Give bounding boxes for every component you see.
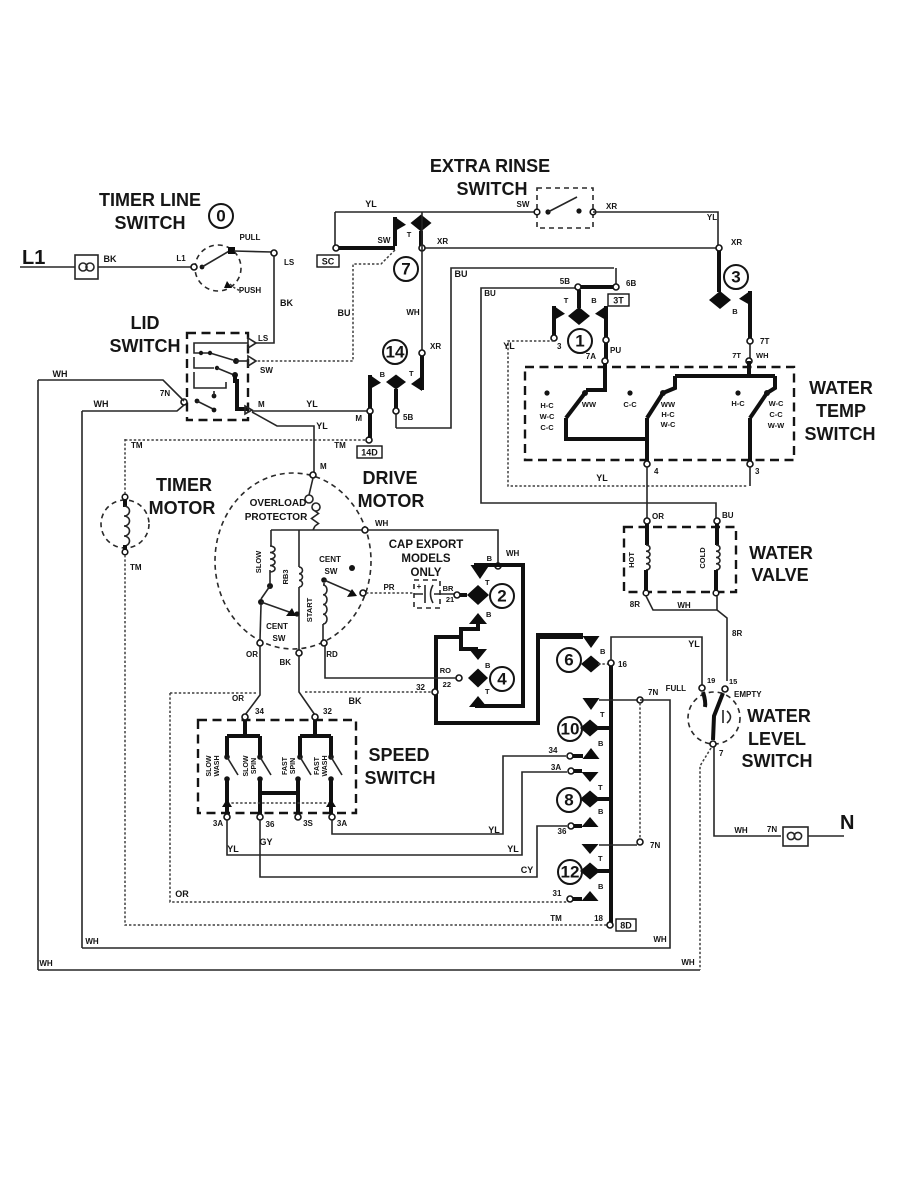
connector circle 4	[490, 667, 514, 691]
svg-text:34: 34	[255, 707, 264, 716]
svg-text:SWITCH: SWITCH	[457, 179, 528, 199]
svg-text:LEVEL: LEVEL	[748, 729, 806, 749]
wire from terminal 4 down	[646, 467, 648, 519]
svg-text:B: B	[732, 307, 738, 316]
wire 8R to water level switch	[717, 610, 727, 681]
svg-text:SW: SW	[273, 634, 286, 643]
wire OR frame vertical	[170, 693, 568, 902]
svg-text:T: T	[598, 783, 603, 792]
svg-text:B: B	[598, 739, 604, 748]
terminal 3A left	[224, 814, 230, 820]
connector 2 diamond	[467, 585, 489, 605]
svg-text:BU: BU	[338, 308, 351, 318]
terminal 36 panel	[568, 823, 574, 829]
svg-text:B: B	[600, 647, 606, 656]
wire 5B-6B thick link	[581, 285, 613, 289]
switch group C	[735, 390, 740, 395]
connector 6 diamond	[581, 656, 601, 673]
wire XR to right corner	[593, 212, 718, 246]
connector 14 right pennant XR	[420, 356, 424, 390]
hot solenoid	[645, 524, 649, 545]
wire YL 3A-left to 3A panel	[227, 772, 567, 855]
extra rinse switch box	[537, 188, 593, 228]
svg-text:MODELS: MODELS	[401, 553, 451, 565]
svg-text:WH: WH	[85, 937, 99, 946]
push arrow	[230, 284, 242, 291]
cent switch upper	[349, 565, 355, 571]
svg-text:PUSH: PUSH	[239, 286, 261, 295]
connector circle 12	[558, 860, 582, 884]
svg-text:5B: 5B	[403, 413, 413, 422]
svg-text:8R: 8R	[732, 629, 742, 638]
terminal 7 common	[710, 741, 716, 747]
water level switch arms	[703, 692, 705, 707]
svg-text:SLOW: SLOW	[254, 550, 263, 573]
connector 4 diamond	[468, 669, 488, 688]
svg-text:XR: XR	[430, 342, 441, 351]
svg-text:SC: SC	[322, 257, 335, 267]
RB3 winding	[298, 530, 300, 567]
main bus 16-18	[609, 666, 613, 923]
lid switch internal wiring	[194, 343, 248, 360]
svg-text:8: 8	[564, 791, 573, 810]
svg-text:WW: WW	[582, 400, 597, 409]
svg-text:SWITCH: SWITCH	[365, 768, 436, 788]
connector circle 3	[724, 265, 748, 289]
svg-text:7T: 7T	[760, 337, 769, 346]
wire 7N horizontal	[599, 699, 637, 701]
svg-text:PROTECTOR: PROTECTOR	[245, 512, 308, 523]
svg-text:SLOWSPIN: SLOWSPIN	[243, 755, 258, 776]
svg-text:ONLY: ONLY	[411, 567, 442, 579]
svg-text:XR: XR	[731, 238, 742, 247]
lid switch terminal SW	[248, 356, 256, 366]
svg-text:36: 36	[266, 820, 275, 829]
capacitor	[414, 580, 440, 608]
slow spin arm	[257, 754, 263, 760]
drive motor terminal RD	[321, 640, 327, 646]
lid switch terminal LS	[248, 338, 256, 348]
wire WH left vertical inner	[81, 411, 83, 948]
svg-text:T: T	[564, 296, 569, 305]
svg-text:OR: OR	[232, 694, 244, 703]
svg-text:OVERLOAD: OVERLOAD	[250, 498, 307, 509]
speed switch left bus	[227, 720, 260, 755]
timer line switch PULL contact wire to LS	[234, 251, 272, 252]
terminal 7T WH	[749, 344, 751, 359]
wire WH upper	[38, 380, 184, 401]
connector circle 10	[558, 717, 582, 741]
connector 3 terminal XR	[716, 245, 722, 251]
svg-text:B: B	[485, 661, 491, 670]
connector circle 6	[557, 648, 581, 672]
terminal 36	[257, 814, 263, 820]
svg-text:7N: 7N	[650, 841, 660, 850]
terminal 3S	[295, 814, 301, 820]
svg-text:WH: WH	[677, 601, 691, 610]
svg-text:W-C: W-C	[769, 399, 784, 408]
svg-text:WH: WH	[53, 369, 68, 379]
connector 8 diamond	[580, 791, 600, 808]
svg-text:VALVE: VALVE	[751, 565, 808, 585]
wire L1 feed	[20, 266, 75, 268]
connector 12 top triangle	[582, 844, 599, 854]
svg-text:+: +	[417, 582, 422, 591]
svg-text:WATER: WATER	[747, 706, 811, 726]
svg-text:RD: RD	[326, 650, 338, 659]
terminal 31	[567, 896, 573, 902]
connector circle 2	[490, 584, 514, 608]
svg-text:6B: 6B	[626, 279, 636, 288]
svg-text:3A: 3A	[213, 819, 223, 828]
svg-text:SWITCH: SWITCH	[805, 424, 876, 444]
svg-text:14: 14	[386, 343, 405, 362]
svg-text:B: B	[598, 807, 604, 816]
connector 7 left pennant SW	[393, 217, 397, 246]
terminal 5B connector 1	[575, 284, 581, 290]
connector 8 bottom triangle	[582, 817, 599, 827]
svg-text:EXTRA RINSE: EXTRA RINSE	[430, 156, 550, 176]
svg-text:C-C: C-C	[623, 400, 637, 409]
connector 4 top triangle	[469, 649, 487, 660]
wire BK to 32	[305, 691, 433, 693]
wire YL diagonal to drive motor M	[252, 412, 314, 472]
terminal BU	[714, 518, 720, 524]
water temp switch 7A stem	[586, 363, 605, 390]
svg-text:32: 32	[416, 683, 425, 692]
svg-text:14D: 14D	[361, 448, 378, 458]
svg-text:BU: BU	[455, 269, 468, 279]
svg-text:START: START	[305, 597, 314, 622]
svg-text:TM: TM	[550, 914, 562, 923]
terminal RO	[456, 675, 462, 681]
timer motor dashed circle	[101, 500, 149, 548]
svg-text:H-C: H-C	[661, 410, 675, 419]
wire BU outer to 6B	[396, 268, 614, 428]
connector circle 14	[383, 340, 407, 364]
wire 8R under valve	[646, 596, 717, 610]
connector 14 M stem down	[368, 414, 372, 438]
terminal EMPTY 15	[722, 686, 728, 692]
svg-text:PR: PR	[383, 583, 394, 592]
svg-text:FASTWASH: FASTWASH	[314, 756, 329, 777]
svg-text:WH: WH	[653, 935, 667, 944]
svg-text:H-C: H-C	[731, 399, 745, 408]
pressure symbol	[723, 710, 731, 723]
svg-text:TIMER: TIMER	[156, 475, 212, 495]
wire TM top	[124, 439, 126, 494]
svg-text:YL: YL	[507, 844, 519, 854]
wire WH bottom outer	[38, 969, 700, 971]
svg-text:0: 0	[216, 207, 225, 226]
svg-text:6: 6	[564, 651, 573, 670]
terminal 18 8D	[607, 922, 613, 928]
svg-text:BK: BK	[104, 254, 117, 264]
svg-text:SWITCH: SWITCH	[115, 213, 186, 233]
connector circle 8	[557, 788, 581, 812]
svg-text:YL: YL	[365, 199, 377, 209]
svg-text:B: B	[591, 296, 597, 305]
wire BK from timer line switch to lid switch LS	[256, 256, 274, 343]
wire GY 36 to 36 panel	[260, 820, 567, 877]
svg-text:4: 4	[654, 467, 659, 476]
svg-text:RO: RO	[440, 666, 451, 675]
wire 7N to connector 12	[599, 844, 637, 846]
drive motor terminal BK	[296, 650, 302, 656]
connector 14 diamond	[386, 375, 406, 390]
svg-text:L1: L1	[176, 254, 186, 263]
svg-text:21: 21	[446, 595, 454, 604]
connector 1 right pennant PU	[604, 306, 608, 338]
svg-text:34: 34	[549, 746, 558, 755]
drive motor terminal M	[310, 472, 316, 478]
svg-text:WH: WH	[39, 959, 53, 968]
speed switch linkage	[227, 802, 331, 804]
wire XR horizontal	[422, 247, 718, 249]
svg-text:BR: BR	[443, 584, 454, 593]
terminal FULL 19	[699, 685, 705, 691]
svg-text:COLD: COLD	[698, 547, 707, 569]
svg-text:GY: GY	[259, 837, 272, 847]
svg-text:BK: BK	[349, 696, 362, 706]
svg-text:W-C: W-C	[661, 420, 676, 429]
wire WH lower	[82, 405, 184, 411]
lid switch thick wire to M	[235, 375, 247, 409]
connector 7 diamond	[411, 215, 432, 232]
svg-text:PULL: PULL	[240, 233, 261, 242]
svg-text:LID: LID	[131, 313, 160, 333]
connector circle 7	[394, 257, 418, 281]
wire SC curve from SW	[256, 250, 395, 361]
svg-text:15: 15	[729, 677, 737, 686]
connector 10 top triangle	[583, 698, 600, 710]
wire PU to 7A	[604, 343, 608, 361]
slow winding	[270, 530, 272, 546]
svg-text:TM: TM	[130, 563, 142, 572]
svg-text:WATER: WATER	[749, 543, 813, 563]
svg-text:B: B	[487, 554, 493, 563]
terminal 34 panel	[567, 753, 573, 759]
water valve box	[624, 527, 736, 592]
svg-text:8D: 8D	[620, 921, 632, 931]
wire YL top	[335, 211, 537, 213]
svg-text:XR: XR	[606, 202, 617, 211]
svg-text:M: M	[355, 414, 362, 423]
svg-text:OR: OR	[246, 650, 258, 659]
wire BK from motor	[299, 656, 315, 715]
svg-text:3: 3	[557, 342, 562, 351]
wire YL 3A-right to 34 panel	[332, 756, 566, 834]
connector 1 stem up to 5B	[577, 290, 581, 308]
timer motor coil	[122, 494, 128, 500]
svg-text:SWITCH: SWITCH	[110, 336, 181, 356]
connector 12 diamond	[580, 863, 600, 880]
terminal 32	[312, 714, 318, 720]
wire 7 diagonal to WH bus	[700, 748, 711, 970]
svg-text:36: 36	[558, 827, 567, 836]
svg-text:H-C: H-C	[540, 401, 554, 410]
svg-text:YL: YL	[707, 213, 717, 222]
terminal OR	[644, 518, 650, 524]
wire YL terminal 3 loop	[749, 467, 751, 486]
wire 7 to N	[714, 747, 781, 836]
svg-text:7N: 7N	[648, 688, 658, 697]
wire YL drop to SW terminal	[334, 212, 336, 248]
terminal TM 14D	[366, 437, 372, 443]
svg-text:T: T	[407, 230, 412, 239]
svg-text:3S: 3S	[303, 819, 313, 828]
terminal 7T	[747, 338, 753, 344]
wire YL lid M to connector 14	[252, 410, 367, 412]
drive motor terminal PR	[360, 590, 366, 596]
connector 14 left pennant M	[368, 375, 372, 408]
speed switch lower bus	[227, 779, 331, 814]
svg-text:WATER: WATER	[809, 378, 873, 398]
svg-text:7N: 7N	[767, 825, 777, 834]
switch group B	[627, 390, 632, 395]
svg-text:MOTOR: MOTOR	[149, 498, 216, 518]
fast wash arm	[328, 754, 334, 760]
speed switch box	[198, 720, 356, 813]
wire PR to capacitor	[366, 592, 414, 594]
connector 3 diamond	[717, 251, 721, 292]
svg-text:W-C: W-C	[540, 412, 555, 421]
wire BK to timer line switch	[98, 266, 191, 268]
svg-text:BU: BU	[722, 511, 734, 520]
svg-text:YL: YL	[227, 844, 239, 854]
svg-text:18: 18	[594, 914, 603, 923]
svg-text:7: 7	[401, 260, 410, 279]
svg-text:16: 16	[618, 660, 627, 669]
terminal 3A right	[329, 814, 335, 820]
terminal 3A panel	[568, 768, 574, 774]
cent switch lower	[258, 599, 264, 605]
svg-text:4: 4	[497, 670, 507, 689]
connector 4 shell box	[436, 635, 583, 723]
svg-text:OR: OR	[652, 512, 664, 521]
node SC label	[317, 255, 339, 267]
svg-text:YL: YL	[596, 473, 608, 483]
svg-text:7T: 7T	[732, 351, 741, 360]
svg-text:W-W: W-W	[768, 421, 785, 430]
svg-text:SW: SW	[325, 567, 338, 576]
timer line switch (dashed circle)	[195, 245, 241, 291]
terminal 6B	[615, 268, 617, 285]
speed switch right bus	[300, 720, 331, 755]
svg-text:TIMER LINE: TIMER LINE	[99, 190, 201, 210]
switch group A	[544, 390, 549, 395]
svg-text:B: B	[380, 370, 386, 379]
connector 2 top triangle	[471, 565, 490, 579]
connector circle 0	[209, 204, 233, 228]
svg-text:YL: YL	[688, 639, 700, 649]
switch group D	[764, 390, 770, 396]
water temp switch box	[525, 367, 794, 460]
svg-text:YL: YL	[503, 341, 515, 351]
wire SW thick to connector 7	[336, 246, 395, 250]
start winding	[323, 583, 325, 585]
svg-text:LS: LS	[284, 258, 295, 267]
wire RO to RD	[325, 646, 456, 678]
terminal 32 box	[432, 689, 438, 695]
wire to N	[808, 835, 844, 837]
connector 6 feed triangle	[538, 635, 583, 639]
wire TM horizontal to 14D	[125, 439, 367, 441]
terminal 3	[747, 461, 753, 467]
terminal 34	[242, 714, 248, 720]
svg-text:SW: SW	[378, 236, 391, 245]
svg-text:OR: OR	[175, 889, 189, 899]
svg-text:FASTSPIN: FASTSPIN	[282, 756, 297, 775]
svg-text:2: 2	[497, 587, 506, 606]
extra rinse switch contacts	[534, 209, 540, 215]
lid switch terminal 7N	[181, 399, 187, 405]
connector 12 bottom triangle	[582, 891, 599, 901]
svg-text:SW: SW	[260, 366, 273, 375]
svg-text:BK: BK	[280, 298, 293, 308]
connector 3 right pennant	[748, 291, 752, 339]
wire WH left vertical outer	[37, 380, 39, 970]
svg-text:B: B	[598, 882, 604, 891]
svg-text:CY: CY	[521, 865, 534, 875]
svg-text:BK: BK	[279, 658, 291, 667]
water temp switch top bus	[663, 361, 775, 393]
svg-text:7N: 7N	[160, 389, 170, 398]
drive motor dashed circle	[215, 473, 371, 649]
svg-text:DRIVE: DRIVE	[362, 468, 417, 488]
svg-text:7A: 7A	[586, 352, 596, 361]
svg-text:5B: 5B	[560, 277, 570, 286]
svg-text:3A: 3A	[337, 819, 347, 828]
svg-text:SW: SW	[517, 200, 530, 209]
svg-text:3: 3	[731, 268, 740, 287]
wire 7N neutral drop	[82, 700, 670, 948]
svg-text:32: 32	[323, 707, 332, 716]
svg-text:10: 10	[561, 720, 580, 739]
node 3T label	[608, 294, 629, 306]
svg-text:22: 22	[443, 680, 451, 689]
svg-text:7: 7	[719, 749, 724, 758]
svg-text:T: T	[485, 578, 490, 587]
wire 5B down	[395, 414, 397, 428]
svg-text:SLOWWASH: SLOWWASH	[206, 755, 221, 776]
terminal 4	[644, 461, 650, 467]
svg-text:12: 12	[561, 863, 580, 882]
L1 plug (disconnect symbol)	[75, 255, 98, 279]
connector 1 left pennant 3	[552, 306, 556, 336]
thick zigzag 2 to 4	[461, 623, 478, 649]
svg-text:TEMP: TEMP	[816, 401, 866, 421]
svg-text:BU: BU	[484, 289, 496, 298]
svg-text:LS: LS	[258, 334, 269, 343]
svg-text:8R: 8R	[630, 600, 640, 609]
connector 7 stem to XR	[419, 231, 423, 246]
svg-text:CENT: CENT	[266, 622, 288, 631]
svg-text:YL: YL	[488, 825, 500, 835]
svg-text:EMPTY: EMPTY	[734, 690, 762, 699]
water level switch dashed circle	[688, 692, 740, 744]
svg-text:WH: WH	[506, 549, 520, 558]
svg-text:RB3: RB3	[281, 569, 290, 584]
connector 10 diamond	[580, 720, 600, 737]
lid switch terminal M	[245, 406, 252, 414]
svg-text:WH: WH	[756, 351, 769, 360]
svg-text:C-C: C-C	[540, 423, 554, 432]
wire YL from terminal 3	[508, 341, 748, 486]
svg-text:N: N	[840, 812, 854, 834]
svg-text:CENT: CENT	[319, 555, 341, 564]
connector circle 1	[568, 329, 592, 353]
